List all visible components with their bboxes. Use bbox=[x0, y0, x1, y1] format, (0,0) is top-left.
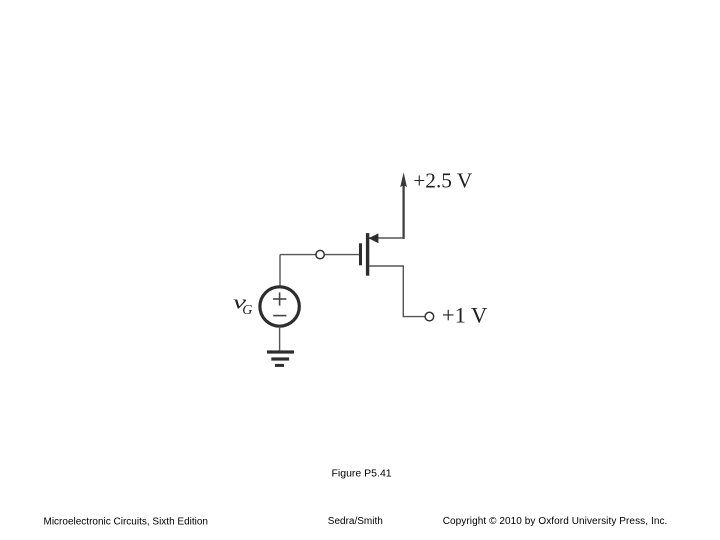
svg-text:G: G bbox=[242, 303, 252, 318]
svg-text:+2.5 V: +2.5 V bbox=[413, 169, 473, 193]
svg-text:Microelectronic Circuits, Sixt: Microelectronic Circuits, Sixth Edition bbox=[44, 517, 209, 528]
svg-text:+1 V: +1 V bbox=[442, 303, 487, 328]
svg-text:Copyright © 2010 by Oxford Uni: Copyright © 2010 by Oxford University Pr… bbox=[443, 516, 668, 527]
svg-text:Figure P5.41: Figure P5.41 bbox=[332, 468, 392, 480]
svg-text:Sedra/Smith: Sedra/Smith bbox=[328, 516, 383, 527]
